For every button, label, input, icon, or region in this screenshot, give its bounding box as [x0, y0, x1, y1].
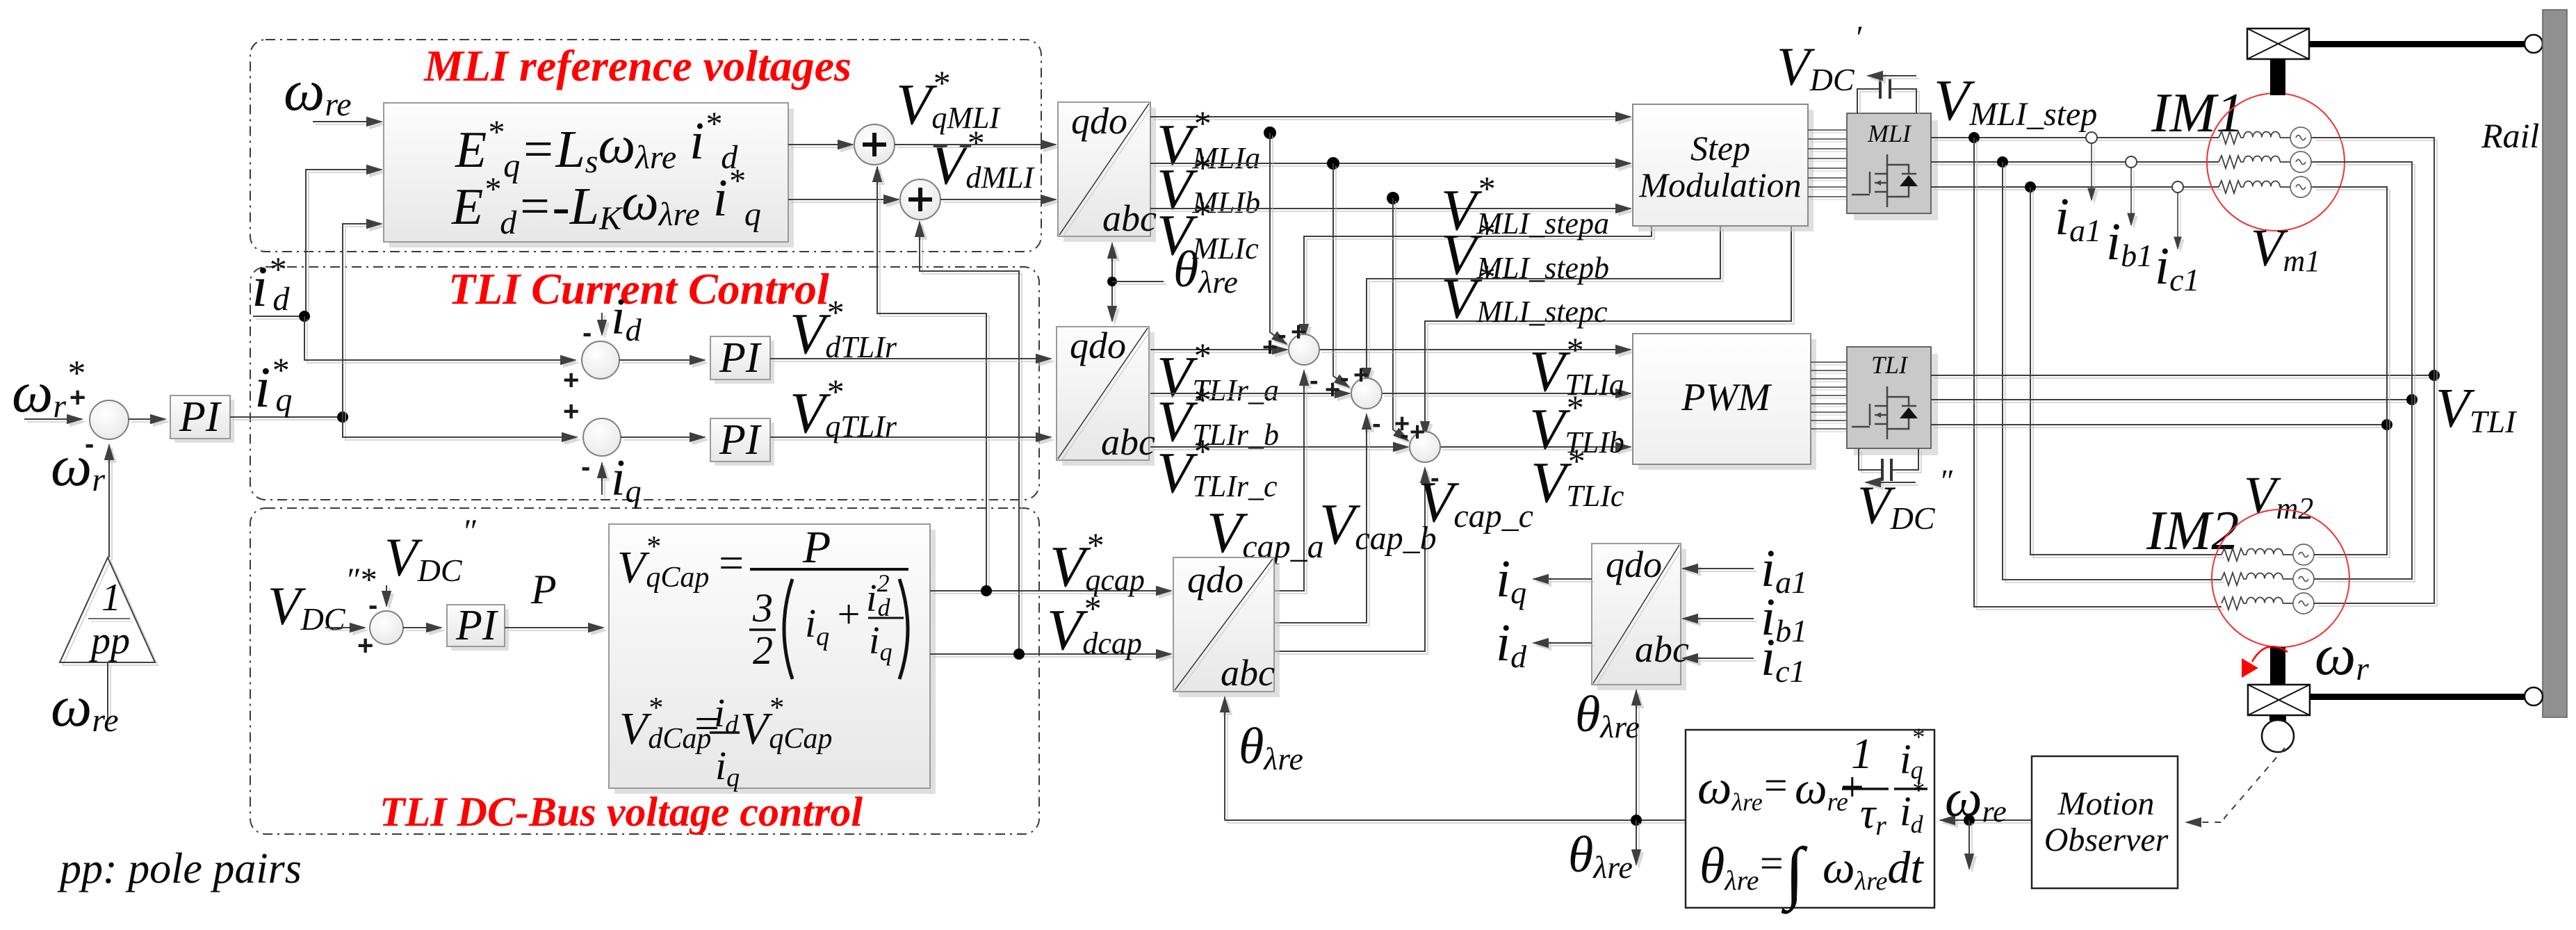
svg-text:+: +	[70, 382, 85, 413]
qdo2 out c	[1150, 446, 1408, 448]
svg-text:-: -	[1310, 366, 1319, 395]
svg-text:+: +	[1325, 375, 1340, 405]
svg-text:abc: abc	[1221, 652, 1275, 694]
svg-text:abc: abc	[1102, 197, 1157, 239]
node i*q	[337, 411, 348, 423]
formula content	[617, 522, 908, 679]
svg-text:V*qTLIr: V*qTLIr	[790, 372, 897, 446]
svg-text:qdo: qdo	[1071, 100, 1127, 142]
summing circle Cq	[583, 418, 621, 456]
svg-text:=: =	[1761, 762, 1790, 808]
tap a to sum1	[1264, 127, 1276, 139]
svg-text:PI: PI	[719, 334, 763, 382]
svg-text:PWM: PWM	[1681, 376, 1772, 419]
summing node S0	[90, 400, 129, 439]
S1 to PI	[403, 627, 441, 628]
equation box E*	[389, 108, 794, 247]
svg-text:1: 1	[1851, 731, 1873, 778]
shaft IM2 down	[2270, 647, 2285, 685]
svg-text:Vcap_c: Vcap_c	[1418, 470, 1533, 535]
svg-text:θλre: θλre	[1239, 718, 1303, 776]
i_c1 input	[1683, 658, 1754, 659]
Cq to PI	[621, 437, 705, 438]
TLI gate bus	[1811, 362, 1847, 429]
wire VDC* into S1	[325, 627, 365, 628]
svg-text:MLI: MLI	[1867, 120, 1912, 147]
svg-text:P: P	[530, 566, 557, 612]
svg-text:=: =	[1757, 840, 1786, 886]
svg-text:PI: PI	[455, 602, 499, 649]
svg-text:TLI: TLI	[1871, 351, 1909, 379]
svg-text:PI: PI	[719, 416, 763, 464]
encoder dashed link to Motion Observer	[2186, 748, 2285, 822]
Cd to PI	[619, 359, 705, 361]
svg-text:TLI Current Control: TLI Current Control	[448, 264, 829, 313]
TLI outputs to VTLI verticals	[1931, 375, 2434, 376]
gain triangle 1/pp	[60, 557, 155, 662]
axle to rail bottom	[2310, 694, 2525, 700]
svg-text:qdo: qdo	[1187, 559, 1244, 601]
dashed box: TLI Current Control	[250, 267, 1039, 500]
svg-text:MLI reference voltages: MLI reference voltages	[423, 41, 851, 90]
svg-text:i*d: i*d	[252, 250, 290, 319]
eq outputs to sum circles	[788, 144, 853, 145]
qdo1 output c	[1150, 208, 1631, 209]
svg-text:i2d: i2d	[866, 569, 891, 621]
svg-text:Step: Step	[1690, 129, 1750, 168]
svg-text:2: 2	[753, 628, 773, 673]
svg-text:VMLI_step: VMLI_step	[1934, 68, 2097, 133]
wire below triangle	[107, 662, 108, 722]
qdo1 output b	[1150, 163, 1631, 164]
current sensors	[2086, 132, 2097, 143]
svg-text:-: -	[1340, 364, 1349, 393]
svg-text:IM1: IM1	[2151, 83, 2244, 144]
svg-text:Vm2: Vm2	[2244, 466, 2313, 525]
svg-text:+: +	[563, 365, 579, 395]
svg-text:qdo: qdo	[1070, 325, 1126, 366]
feedback wire dcap to circle B bottom	[920, 222, 1019, 654]
svg-text:Motion: Motion	[2057, 785, 2155, 822]
theta input to qdo3	[1224, 697, 1225, 820]
encoder	[2269, 715, 2286, 721]
svg-text:id: id	[1496, 614, 1527, 674]
qdo2 out b	[1150, 393, 1350, 394]
wire i*q to Cq	[343, 417, 577, 437]
MLI output lines to IM1	[1931, 137, 2219, 138]
omega_re from observer into box5	[1940, 819, 2032, 821]
svg-text:-: -	[1372, 409, 1381, 439]
svg-text:Modulation: Modulation	[1638, 165, 1801, 204]
i_a1 input	[1683, 568, 1754, 569]
svg-text:Vm1: Vm1	[2251, 219, 2320, 278]
windings IM2	[2222, 544, 2316, 614]
svg-text:VDC′: VDC′	[1777, 19, 1863, 97]
svg-text:+: +	[1291, 318, 1306, 347]
i_q output	[1533, 578, 1592, 580]
tap c to sum3	[1387, 192, 1399, 204]
svg-text:V*dTLIr: V*dTLIr	[790, 293, 897, 366]
svg-text:=: =	[716, 538, 746, 587]
formula box	[614, 530, 936, 794]
PI to qdo2 (V*dTLIr)	[770, 358, 1051, 359]
svg-text:VDC″: VDC″	[384, 513, 477, 588]
MOSFET icon MLI	[1852, 154, 1918, 207]
svg-text:i*q: i*q	[254, 350, 292, 420]
svg-text:ωre: ωre	[1945, 769, 2007, 829]
svg-text:-: -	[581, 452, 590, 482]
svg-text:+: +	[1410, 418, 1425, 447]
red stator circle IM1	[2207, 93, 2345, 231]
red rotation arrow	[2242, 658, 2258, 678]
svg-text:-: -	[368, 590, 377, 621]
sum circle 1	[1289, 334, 1319, 365]
PI to qdo2 (V*qTLIr)	[770, 437, 1051, 438]
VDC'' arrow	[1866, 482, 1916, 483]
summing circle A (+)	[854, 124, 895, 165]
svg-text:+: +	[1353, 361, 1369, 390]
svg-text:pp: pole pairs: pp: pole pairs	[57, 845, 302, 892]
svg-text:θλre: θλre	[1568, 826, 1633, 885]
PI box (speed)	[129, 418, 165, 420]
summing circle Cd	[582, 341, 619, 379]
svg-text:1: 1	[101, 576, 121, 619]
DC cap above MLI	[1857, 89, 1879, 113]
svg-text:ωr: ωr	[51, 434, 105, 498]
svg-text:pp: pp	[88, 619, 130, 662]
svg-text:∫: ∫	[1781, 833, 1808, 914]
svg-text:VDC″: VDC″	[1857, 463, 1953, 536]
dashed box: TLI DC-Bus voltage control	[250, 508, 1039, 834]
MOSFET icon TLI	[1852, 386, 1918, 439]
PI to formula box	[505, 627, 603, 628]
svg-text:PI: PI	[179, 393, 222, 441]
svg-text:ib1: ib1	[2106, 213, 2153, 273]
tap b to sum2	[1327, 157, 1339, 170]
Vcap feeds up into sums	[1274, 370, 1304, 591]
node i*d	[299, 311, 310, 322]
svg-text:VDC″*: VDC″*	[268, 562, 376, 637]
summing circle B (+)	[900, 179, 940, 220]
axle to rail top	[2309, 41, 2526, 47]
qdo2 out a through sum1 to PWM	[1150, 349, 1287, 350]
svg-text:P: P	[802, 522, 831, 573]
svg-text:iq: iq	[1496, 550, 1526, 610]
rail	[2543, 10, 2567, 717]
svg-text:Observer: Observer	[2044, 822, 2169, 858]
svg-text:iq: iq	[611, 450, 642, 509]
qdo1 output a	[1150, 116, 1631, 117]
VDC' arrow	[1868, 75, 1916, 76]
svg-text:V*qMLI: V*qMLI	[896, 63, 1001, 137]
IM1 right side wires to IM2	[2313, 138, 2434, 603]
eq box input wires (from i*d, i*q)	[306, 170, 382, 316]
DC cap below TLI	[1859, 448, 1881, 470]
sum circle 2	[1351, 378, 1382, 409]
svg-text:+: +	[835, 592, 862, 637]
svg-text:abc: abc	[1635, 628, 1689, 670]
svg-text:qdo: qdo	[1606, 544, 1662, 585]
svg-text:VTLI: VTLI	[2436, 378, 2518, 439]
theta_lre double arrow between qdo1 and qdo2	[1111, 243, 1113, 321]
wire triangle to S0	[108, 445, 110, 557]
svg-text:θλre: θλre	[1575, 686, 1640, 744]
svg-text:Vcap_a: Vcap_a	[1207, 500, 1324, 565]
svg-text:ωre: ωre	[284, 58, 352, 123]
red stator circle IM2	[2212, 509, 2349, 647]
wires A,B to qdo block1	[895, 144, 1056, 145]
outputs V*qcap V*dcap	[930, 590, 1171, 592]
svg-text:-: -	[1400, 421, 1409, 450]
theta input to qdo4	[1636, 690, 1637, 820]
gearbox IM2	[2248, 685, 2310, 715]
svg-text:ia1: ia1	[2055, 188, 2101, 248]
svg-text:+: +	[357, 630, 373, 661]
svg-text:V*dcap: V*dcap	[1047, 589, 1142, 662]
sum circle 3	[1410, 432, 1440, 462]
svg-text:-: -	[1278, 320, 1287, 350]
svg-text:Rail: Rail	[2481, 116, 2539, 155]
svg-text:+: +	[563, 396, 579, 427]
svg-text:+: +	[1262, 333, 1278, 362]
gearbox IM1	[2247, 28, 2309, 59]
svg-text:3: 3	[752, 585, 773, 630]
svg-text:TLI DC-Bus voltage control: TLI DC-Bus voltage control	[380, 789, 863, 835]
svg-text:V*dMLI: V*dMLI	[930, 123, 1035, 197]
summing circle S1	[370, 611, 403, 644]
step feed down lines	[1304, 226, 1652, 339]
taps down to IM2	[1974, 138, 2222, 607]
wire PI to i*q node	[230, 416, 343, 418]
wire into S0	[24, 418, 82, 420]
svg-text:abc: abc	[1101, 421, 1155, 463]
i_d output	[1533, 642, 1592, 644]
svg-text:ωr: ωr	[2315, 623, 2369, 687]
i_b1 input	[1683, 618, 1754, 619]
windings IM1	[2219, 127, 2313, 197]
feedback wire qcap to circle A bottom	[877, 167, 986, 591]
dashed box: MLI reference voltages	[250, 40, 1041, 252]
MLI gate bus	[1808, 130, 1847, 197]
svg-text:-: -	[582, 318, 592, 348]
